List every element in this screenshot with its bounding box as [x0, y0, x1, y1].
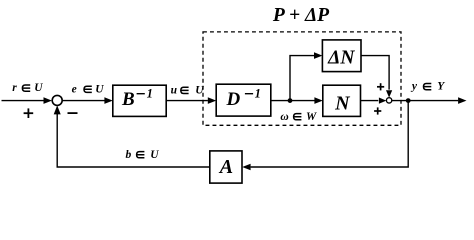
label u in U: [171, 85, 205, 97]
arrowhead into DeltaN: [314, 52, 322, 59]
arrowhead into A from right: [242, 164, 250, 171]
arrowhead into D: [208, 97, 216, 104]
svg-text:ω: ω: [280, 111, 288, 123]
svg-text:U: U: [34, 82, 43, 94]
node: summing junction S2: [386, 98, 391, 103]
arrowhead into B: [104, 97, 112, 104]
wire: feedback from tap down and left into A: [251, 101, 409, 167]
svg-text:1: 1: [147, 86, 153, 100]
block B^-1: [113, 85, 166, 116]
wire: node omega up and right into DeltaN: [290, 56, 314, 101]
arrowhead down into S2: [386, 90, 392, 97]
svg-text:e: e: [72, 83, 77, 95]
wire: N output into S2: [361, 100, 379, 102]
label b in U: [126, 149, 160, 161]
label y in Y: [410, 81, 445, 93]
svg-text:r: r: [12, 82, 17, 94]
node: omega junction dot: [288, 98, 293, 103]
svg-text:P + ΔP: P + ΔP: [272, 5, 330, 26]
wire: feedback from A left and up into S1: [57, 114, 210, 167]
node: summing junction S1: [52, 95, 62, 105]
wire: input r into summing junction: [2, 100, 44, 102]
label e in U: [72, 83, 105, 95]
arrowhead into summing junction S1: [44, 97, 52, 104]
svg-text:B: B: [121, 89, 135, 110]
node: output tap dot: [406, 98, 411, 103]
block A: [210, 151, 242, 183]
svg-text:Y: Y: [437, 81, 445, 93]
dashed box P+dP: [203, 32, 401, 125]
wire: u from B to D: [166, 100, 208, 102]
sign + at S1 (input): [24, 108, 34, 118]
svg-text:U: U: [150, 149, 159, 161]
svg-text:A: A: [218, 156, 233, 178]
block N: [323, 85, 361, 116]
svg-text:D: D: [226, 89, 241, 110]
svg-text:W: W: [306, 111, 317, 123]
label omega in W: [280, 111, 317, 123]
svg-text:b: b: [126, 149, 132, 161]
arrowhead into N: [314, 97, 322, 104]
wire: DeltaN output right and down into S2: [361, 56, 389, 90]
sign + at S2 bottom: [374, 107, 381, 114]
arrowhead output y: [458, 97, 466, 104]
svg-text:y: y: [410, 81, 418, 93]
svg-text:1: 1: [255, 86, 261, 100]
wire: S2 to output y with tap node: [392, 100, 458, 102]
svg-text:ΔN: ΔN: [327, 48, 355, 69]
svg-text:u: u: [171, 85, 178, 97]
block DeltaN: [322, 40, 361, 72]
wire: e from S1 to block B: [62, 100, 104, 102]
svg-text:U: U: [95, 83, 104, 95]
sign + at S2 top: [377, 83, 384, 90]
sign minus at S1 (feedback): [68, 112, 78, 114]
wire: D output to node omega and into N: [271, 100, 315, 102]
block D^-1: [216, 84, 271, 116]
svg-text:N: N: [334, 92, 351, 114]
label r in U: [12, 82, 43, 94]
arrowhead up into S1: [54, 105, 61, 114]
arrowhead into S2 from left: [379, 98, 386, 104]
